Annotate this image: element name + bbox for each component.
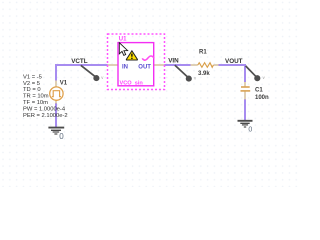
cursor pointer	[119, 43, 127, 56]
pin stub U1 right	[154, 64, 165, 66]
wire V1 top vertical	[55, 64, 57, 81]
U1 selection dashed box	[108, 34, 165, 90]
svg-text:TD = 0: TD = 0	[23, 87, 41, 93]
ground left	[48, 128, 64, 134]
svg-text:PW = 1.0000e-4: PW = 1.0000e-4	[23, 106, 66, 112]
lead C1 top	[244, 82, 246, 87]
probe VIN	[175, 65, 197, 82]
svg-text:VCO_sin: VCO_sin	[120, 80, 144, 86]
svg-text:V1 = -5: V1 = -5	[23, 74, 42, 80]
warning triangle icon	[126, 51, 137, 60]
svg-text:0: 0	[59, 132, 64, 141]
background grid	[0, 0, 300, 187]
lead R1 right	[213, 64, 218, 66]
wire VOUT vertical	[244, 64, 246, 82]
svg-text:OUT: OUT	[138, 65, 151, 71]
wire VCTL horizontal	[56, 64, 108, 66]
svg-text:3.9k: 3.9k	[198, 71, 210, 77]
lead R1 left	[191, 64, 198, 66]
svg-text:PER = 2.1000e-2: PER = 2.1000e-2	[23, 113, 68, 119]
svg-text:V1: V1	[60, 81, 68, 87]
wire VOUT horizontal	[219, 64, 247, 66]
pin stub U1 left	[108, 64, 119, 66]
voltage source V1	[50, 87, 63, 100]
svg-text:VIN: VIN	[168, 57, 179, 64]
sine icon	[142, 56, 154, 60]
svg-text:VCTL: VCTL	[71, 58, 88, 65]
svg-text:100n: 100n	[255, 95, 269, 101]
svg-text:C1: C1	[255, 87, 263, 93]
pin stub V1 bottom	[55, 100, 57, 103]
probe VOUT	[246, 66, 266, 81]
svg-text:TF = 10m: TF = 10m	[23, 100, 48, 106]
op-amp U1 block body	[118, 43, 154, 86]
svg-text:R1: R1	[199, 50, 207, 56]
svg-text:VOUT: VOUT	[225, 58, 243, 65]
capacitor C1	[241, 87, 251, 91]
svg-text:0: 0	[248, 126, 252, 133]
svg-text:U1: U1	[119, 37, 127, 43]
probe VCTL	[81, 65, 105, 81]
wire V1 bottom to ground	[55, 103, 57, 127]
resistor R1	[198, 63, 214, 68]
ground right	[238, 121, 253, 127]
lead C1 bottom	[244, 91, 246, 100]
V1 parameter text	[23, 74, 68, 118]
wire cap to ground	[244, 99, 246, 120]
svg-text:IN: IN	[122, 65, 128, 71]
svg-text:V2 = 5: V2 = 5	[23, 81, 40, 87]
svg-text:TR = 10m: TR = 10m	[23, 94, 49, 100]
wire VIN	[165, 64, 191, 66]
pin stub V1 top	[55, 81, 57, 88]
